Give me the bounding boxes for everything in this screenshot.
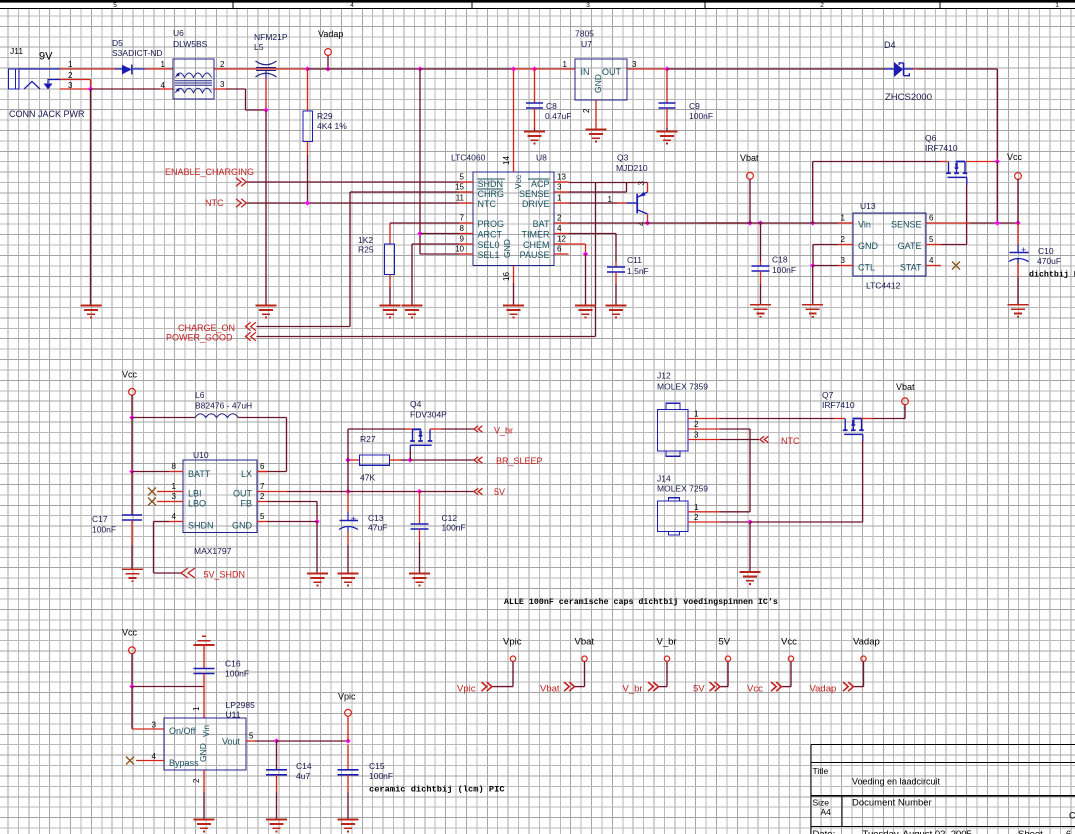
node junction J14 pin2: [747, 519, 752, 524]
svg-text:100nF: 100nF: [442, 523, 466, 533]
C12 plates: [411, 523, 429, 525]
svg-text:POWER_GOOD: POWER_GOOD: [166, 333, 233, 343]
ground (U8 GND): [503, 306, 524, 318]
wire CHEM to PAUSE: [569, 243, 586, 245]
svg-text:V_br: V_br: [623, 684, 643, 695]
svg-text:Vcc: Vcc: [122, 370, 138, 380]
wire SENSE net to emitter: [569, 191, 627, 193]
svg-text:Vpic: Vpic: [503, 637, 522, 648]
pin 5 U10: [257, 521, 267, 523]
svg-text:BAT: BAT: [533, 219, 550, 229]
svg-text:100nF: 100nF: [689, 111, 713, 121]
svg-text:GATE: GATE: [898, 241, 922, 251]
svg-text:U8: U8: [536, 153, 547, 163]
ground (C11): [606, 306, 627, 318]
svg-text:OUT: OUT: [233, 489, 253, 499]
Vbat circle: [747, 172, 754, 179]
V_br circle: [664, 656, 669, 661]
svg-text:MOLEX 7259: MOLEX 7259: [657, 484, 708, 494]
svg-text:Document Number: Document Number: [852, 798, 932, 809]
wire Q6 to D4 node: [966, 161, 997, 163]
wire ENABLE_CHARGING to U8 SHDN: [247, 181, 459, 183]
wire D5 to U6 pin1: [145, 68, 173, 70]
wire Vadap rail down to SEL1 (x=420): [419, 69, 421, 254]
svg-text:Bypass: Bypass: [169, 758, 199, 768]
svg-text:4: 4: [929, 256, 934, 265]
svg-text:1: 1: [68, 60, 73, 69]
svg-text:7: 7: [260, 482, 265, 491]
svg-text:1K2: 1K2: [358, 235, 373, 245]
svg-text:Vadap: Vadap: [853, 637, 880, 648]
Vpic circle: [510, 656, 515, 661]
svg-text:CHEM: CHEM: [523, 240, 550, 250]
LBO stub + no-connect: [157, 501, 169, 503]
svg-text:Q3: Q3: [617, 153, 629, 163]
svg-text:2: 2: [192, 778, 201, 783]
wire BAT rail to right: [569, 222, 751, 224]
node junction Vcc riser / SENSE: [1015, 220, 1020, 225]
svg-text:ZHCS2000: ZHCS2000: [885, 92, 932, 103]
pin 8 U8: [459, 233, 473, 235]
pin 14 U8 Vcc: [513, 69, 515, 172]
svg-text:SHDN: SHDN: [478, 179, 504, 189]
node junction R27 right / Q4 gate: [407, 457, 412, 462]
svg-text:1: 1: [608, 195, 613, 204]
svg-text:Tuesday, August 02, 2005: Tuesday, August 02, 2005: [863, 829, 972, 834]
svg-text:R27: R27: [360, 434, 376, 444]
pin 12 U8: [554, 243, 569, 245]
pin 2 U13: [838, 244, 853, 246]
pin 6 U13: [926, 222, 941, 224]
svg-text:7: 7: [460, 214, 465, 223]
svg-text:1: 1: [694, 503, 699, 512]
svg-text:9V: 9V: [39, 51, 53, 63]
pin 3 U7: [627, 68, 667, 70]
svg-text:11: 11: [456, 194, 465, 203]
node junction R29 top: [305, 66, 310, 71]
pin 1 U13: [838, 222, 853, 224]
svg-text:OUT: OUT: [602, 67, 622, 77]
svg-text:5V: 5V: [693, 684, 705, 695]
svg-text:C13: C13: [368, 513, 384, 523]
wire TIMER to C11: [569, 233, 617, 235]
pin 1 J12: [688, 418, 719, 420]
svg-text:C9: C9: [689, 101, 700, 111]
wire node to ground: [749, 522, 751, 572]
capacitor C11 1,5nF: [607, 266, 625, 268]
Q3 emitter: [638, 192, 648, 197]
ground (C18): [750, 305, 771, 317]
svg-text:R29: R29: [317, 111, 333, 121]
svg-text:3: 3: [557, 183, 562, 192]
node junction FB/GND: [314, 519, 319, 524]
svg-text:C16: C16: [225, 659, 241, 669]
svg-text:U7: U7: [581, 39, 592, 49]
wire Q4 drain to V_br: [430, 428, 441, 430]
wire down to On/Off: [131, 687, 133, 730]
svg-text:3: 3: [172, 492, 177, 501]
svg-text:3: 3: [841, 256, 846, 265]
title block: [811, 745, 1075, 834]
ground (C12): [409, 574, 430, 586]
wire J11 pin3: [60, 88, 91, 90]
Vcc circle mid: [129, 388, 136, 395]
wire D4 node down to SENSE row: [996, 162, 998, 224]
wire SEL0 to ground: [412, 243, 459, 245]
wire U6 pin3 out: [214, 88, 226, 90]
svg-text:S3ADICT-ND: S3ADICT-ND: [112, 48, 163, 58]
pin 3 J12: [688, 439, 719, 441]
svg-text:Q4: Q4: [410, 399, 422, 409]
svg-text:U13: U13: [860, 201, 876, 211]
capacitor C14 4u7: [276, 741, 278, 770]
no-connect LBI: [148, 488, 156, 496]
wire J14 pin2 node: [719, 521, 750, 523]
svg-text:Vadap: Vadap: [318, 29, 343, 39]
C9 plates: [659, 102, 676, 104]
node junction drain rail / D4: [995, 159, 1000, 164]
wire PAUSE to ground: [585, 254, 587, 306]
Vpic circle: [345, 709, 352, 716]
pin 2 J12: [688, 428, 719, 430]
wire junction down to ground: [90, 89, 92, 306]
wire POWER_GOOD to U8 ACP: [257, 336, 596, 338]
svg-text:0.47uF: 0.47uF: [545, 111, 571, 121]
svg-text:U10: U10: [193, 450, 209, 460]
svg-text:PROG: PROG: [478, 219, 505, 229]
wire J14 pin1 to J12 pin2: [719, 511, 750, 513]
svg-text:B82476 - 47uH: B82476 - 47uH: [195, 401, 252, 411]
svg-text:NTC: NTC: [478, 199, 497, 209]
node junction R29/NTC: [305, 200, 310, 205]
wire to C16/Vin: [132, 686, 204, 688]
Vcc circle: [788, 656, 793, 661]
wire U6 pin3 to NFM center node: [226, 88, 246, 90]
pin 2 U8: [554, 222, 569, 224]
svg-text:Voeding en laadcircuit: Voeding en laadcircuit: [852, 777, 941, 787]
node junction BATT: [129, 469, 134, 474]
svg-text:2: 2: [820, 2, 824, 9]
Q4 gate down to BR_SLEEP: [409, 445, 411, 450]
wire CTL row: [813, 265, 838, 267]
wire C16 to Vin pin1: [203, 674, 205, 687]
svg-text:R25: R25: [358, 245, 374, 255]
pin 16 U8 GND: [513, 266, 515, 284]
svg-text:CHARGE_ON: CHARGE_ON: [178, 323, 235, 333]
capacitor C16 100nF: [194, 668, 215, 670]
wire rail Vadap to ARCT riser: [308, 68, 421, 70]
node junction C14: [274, 738, 279, 743]
svg-text:C10: C10: [1038, 246, 1054, 256]
pin 3 U8: [554, 191, 569, 193]
svg-text:C14: C14: [296, 761, 312, 771]
svg-text:D4: D4: [884, 40, 896, 50]
pin 5 U11 Vout: [246, 740, 255, 742]
svg-text:NTC: NTC: [205, 198, 224, 208]
svg-text:SEL0: SEL0: [478, 240, 500, 250]
svg-text:C18: C18: [772, 255, 788, 265]
svg-text:STAT: STAT: [900, 263, 922, 273]
svg-text:LBO: LBO: [188, 499, 206, 509]
svg-text:CHRG: CHRG: [478, 189, 505, 199]
node junction J11 pin2/pin3: [88, 86, 93, 91]
overbars SHDN CHRG ACP: [478, 178, 506, 180]
svg-text:GND: GND: [858, 241, 879, 251]
pin 1 U7: [535, 68, 576, 70]
svg-text:Vbat: Vbat: [896, 382, 915, 392]
svg-text:CONN JACK PWR: CONN JACK PWR: [9, 109, 85, 119]
net label 5V_SHDN: [181, 568, 195, 578]
ground (PAUSE): [575, 306, 596, 318]
svg-text:V_br: V_br: [657, 637, 677, 648]
wire J11 pin2: [60, 79, 91, 81]
svg-text:ACP: ACP: [531, 179, 550, 189]
svg-text:5: 5: [113, 2, 117, 9]
svg-text:2: 2: [220, 60, 225, 69]
5V circle: [725, 656, 730, 661]
svg-text:Vout: Vout: [222, 737, 241, 747]
wire NTC to U8 pin11: [247, 202, 459, 204]
pin 5 U13: [926, 244, 941, 246]
LBI stub + no-connect: [157, 491, 169, 493]
node junction C8: [532, 66, 537, 71]
Vadap circle: [325, 49, 332, 56]
wire Vcc down to BATT: [131, 418, 133, 472]
svg-text:C15: C15: [369, 761, 385, 771]
node junction C12/5V: [417, 489, 422, 494]
ground (input filter): [256, 306, 277, 318]
svg-text:CTL: CTL: [858, 263, 875, 273]
pin 2 U11 GND: [203, 770, 205, 792]
svg-text:NTC: NTC: [781, 436, 800, 446]
wire J12 pin1 to Q7: [719, 418, 834, 420]
wire BATT row: [132, 471, 169, 473]
wire OUT row = 5V rail: [267, 491, 287, 493]
ground (R25): [380, 306, 401, 318]
pin 8 U10: [169, 471, 183, 473]
svg-text:1: 1: [192, 706, 201, 711]
node junction NFM/pin3 rail: [263, 107, 268, 112]
svg-text:3: 3: [220, 80, 225, 89]
ground (SEL0): [402, 306, 423, 318]
svg-text:J14: J14: [657, 474, 671, 484]
svg-text:GND: GND: [198, 743, 208, 762]
svg-text:LX: LX: [241, 469, 252, 479]
svg-text:2: 2: [260, 492, 265, 501]
pin 2 U10: [257, 501, 267, 503]
svg-text:5: 5: [460, 173, 465, 182]
capacitor C8 0.47uF: [534, 69, 536, 103]
svg-text:MAX1797: MAX1797: [194, 546, 232, 556]
svg-text:Vpic: Vpic: [457, 684, 476, 695]
svg-text:On/Off: On/Off: [169, 726, 196, 736]
Vbat circle: [582, 656, 587, 661]
capacitor C15 100nF: [347, 745, 349, 770]
svg-text:Vbat: Vbat: [740, 153, 759, 163]
ground (U7): [586, 130, 607, 142]
svg-text:TIMER: TIMER: [522, 230, 550, 240]
pin 4 U13: [926, 265, 941, 267]
svg-text:PAUSE: PAUSE: [520, 250, 550, 260]
svg-text:4: 4: [172, 512, 177, 521]
svg-text:2: 2: [557, 214, 562, 223]
svg-text:GND: GND: [232, 521, 253, 531]
Q3 collector: [638, 210, 648, 214]
svg-text:IRF7410: IRF7410: [925, 143, 958, 153]
svg-text:47K: 47K: [360, 473, 375, 483]
wire GND row: [267, 521, 317, 523]
pin 11 U8: [459, 202, 473, 204]
wire CHARGE_ON to U8 CHRG: [257, 326, 351, 328]
wire SEL1 row: [420, 253, 459, 255]
svg-text:5: 5: [249, 732, 254, 741]
svg-text:4u7: 4u7: [296, 771, 310, 781]
pin 2 J14: [688, 521, 719, 523]
svg-text:1,5nF: 1,5nF: [627, 266, 649, 276]
svg-text:Vpic: Vpic: [338, 692, 356, 702]
ground (C15): [338, 820, 359, 832]
wire BAT rail from left: [700, 222, 750, 224]
ground (U11): [194, 820, 215, 832]
svg-text:J12: J12: [657, 371, 671, 381]
svg-text:C17: C17: [92, 514, 108, 524]
svg-text:4: 4: [557, 224, 562, 233]
Vcc circle bottom: [129, 647, 136, 654]
ground (U10): [307, 574, 328, 586]
pin 4 U10: [169, 521, 183, 523]
svg-text:J11: J11: [10, 46, 23, 56]
wire GND to ground: [316, 522, 318, 574]
ground (J14): [740, 572, 761, 584]
wire NFM third terminal down: [265, 79, 267, 111]
Vadap circle: [861, 656, 866, 661]
node junction R27 left: [345, 457, 350, 462]
pin 6 U10: [257, 471, 267, 473]
svg-text:ENABLE_CHARGING: ENABLE_CHARGING: [165, 167, 254, 177]
svg-text:C8: C8: [546, 101, 557, 111]
svg-text:FB: FB: [240, 499, 252, 509]
svg-text:IN: IN: [581, 67, 590, 77]
wire Vbat rail junctions: [747, 220, 752, 225]
svg-text:1: 1: [557, 194, 562, 203]
net label 5V: [474, 488, 482, 494]
wire D4 to corner down to Vcc rail: [918, 68, 997, 70]
svg-text:Date:: Date:: [813, 829, 836, 834]
pin 5 U8: [459, 181, 473, 183]
svg-text:BR_SLEEP: BR_SLEEP: [496, 456, 543, 466]
svg-text:DLW5BS: DLW5BS: [173, 39, 208, 49]
wire DRIVE to Q3 base: [569, 202, 618, 204]
svg-text:470uF: 470uF: [1037, 256, 1061, 266]
svg-text:4: 4: [161, 81, 166, 90]
node junction Q3 collector / BAT rail: [645, 220, 650, 225]
svg-text:1: 1: [563, 60, 568, 69]
node junction C9: [664, 66, 669, 71]
svg-text:1: 1: [694, 410, 699, 419]
svg-text:5: 5: [260, 512, 265, 521]
pin 4 U11 Bypass no-connect: [136, 760, 164, 762]
ground (C9): [657, 132, 678, 144]
wire ACP row: [569, 182, 627, 184]
wire J11 pin1 to D5: [60, 68, 115, 70]
svg-text:SEL1: SEL1: [478, 250, 500, 260]
wire node down to ground: [265, 110, 267, 306]
wire L6 to LX: [286, 418, 288, 472]
wire rail U7 out to D4: [667, 68, 885, 70]
svg-text:8: 8: [460, 224, 465, 233]
svg-text:SENSE: SENSE: [891, 220, 922, 230]
svg-text:100nF: 100nF: [225, 669, 249, 679]
svg-text:7805: 7805: [575, 29, 594, 39]
node junction ARCT: [417, 231, 422, 236]
svg-text:Vcc: Vcc: [747, 684, 763, 695]
node junction L6: [129, 415, 134, 420]
svg-text:NFM21P: NFM21P: [254, 32, 288, 42]
Q6 symbol: [949, 162, 966, 173]
wire FB row: [267, 501, 317, 503]
C17 plates: [122, 514, 142, 516]
node junction C13/5V: [345, 489, 350, 494]
svg-text:4: 4: [350, 2, 354, 9]
pin 3 U10: [169, 501, 183, 503]
wire U6 pin2 rail to NFM: [226, 68, 256, 70]
wire Q4 rail: [348, 428, 406, 430]
pin 13 U8: [554, 181, 569, 183]
pin 9 U8: [459, 243, 473, 245]
svg-text:MOLEX 7359: MOLEX 7359: [657, 382, 708, 392]
node junction Vpic/C15: [345, 738, 350, 743]
svg-text:2: 2: [694, 420, 699, 429]
svg-text:Vbat: Vbat: [575, 637, 595, 648]
pin 1 J14: [688, 511, 719, 513]
svg-text:ARCT: ARCT: [478, 230, 503, 240]
svg-text:IRF7410: IRF7410: [822, 400, 855, 410]
svg-text:LP2985: LP2985: [226, 700, 256, 710]
wire R27 left riser: [347, 429, 349, 460]
pin 7 U10: [257, 491, 267, 493]
svg-text:3: 3: [152, 721, 157, 730]
Vbat circle 2: [902, 398, 909, 405]
svg-text:Vbat: Vbat: [540, 684, 560, 695]
wire node to Q7 gate: [750, 521, 863, 523]
svg-text:D5: D5: [112, 38, 123, 48]
svg-text:Vcc: Vcc: [1007, 152, 1023, 162]
svg-text:Sheet: Sheet: [1018, 829, 1043, 834]
pin 1 U10: [169, 491, 183, 493]
wire ARCT row: [420, 233, 459, 235]
node junction D4 riser / SENSE: [995, 220, 1000, 225]
svg-text:SENSE: SENSE: [519, 189, 550, 199]
svg-text:Size: Size: [813, 798, 830, 808]
wire U6 pin2 out: [214, 68, 226, 70]
pin 2 U7 GND: [595, 100, 597, 130]
capacitor C17 100nF: [131, 472, 133, 516]
svg-text:A4: A4: [821, 807, 832, 817]
svg-text:5: 5: [929, 235, 934, 244]
svg-text:3: 3: [694, 431, 699, 440]
wire rail to U7: [420, 68, 514, 70]
svg-text:Q7: Q7: [822, 390, 834, 400]
svg-text:FDV304P: FDV304P: [410, 410, 447, 420]
wire J12 pin3 NTC: [719, 439, 759, 441]
capacitor C9 100nF: [666, 69, 668, 103]
svg-text:MJD210: MJD210: [616, 163, 648, 173]
svg-text:15: 15: [455, 183, 464, 192]
svg-text:Q6: Q6: [925, 133, 937, 143]
svg-text:+: +: [1021, 245, 1027, 256]
svg-text:1: 1: [172, 482, 177, 491]
wire BR_SLEEP: [410, 459, 474, 461]
